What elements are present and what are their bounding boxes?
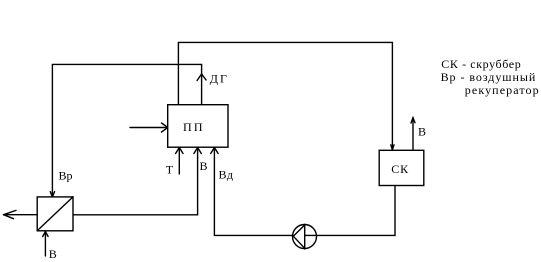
svg-text:ПП: ПП (183, 120, 205, 134)
label В below Вр (49, 247, 57, 261)
arrow exhaust out of Вр left side (4, 210, 38, 218)
legend line 1: СК - скруббер (441, 57, 521, 71)
svg-text:СК: СК (391, 162, 409, 176)
arrowhead down into СК top (391, 145, 394, 150)
label ДГ (210, 71, 229, 85)
wire ДГ flue gas: ПП top to Вр top (52, 64, 201, 196)
box СК scrubber (379, 150, 424, 185)
svg-text:рекуператор: рекуператор (465, 83, 540, 97)
label В at ПП bottom (200, 159, 208, 173)
arrow input into ПП left side (130, 123, 168, 132)
svg-text:В: В (418, 125, 426, 139)
svg-text:В: В (49, 247, 57, 261)
legend line 3: рекуператор (465, 83, 540, 97)
legend line 2: Вр - воздушный (441, 70, 537, 84)
svg-text:Вр - воздушный: Вр - воздушный (441, 70, 537, 84)
label ПП (183, 120, 205, 134)
wire Вд: СК bottom through pump to ПП bottom (211, 148, 395, 236)
box ПП (168, 105, 228, 148)
pump (circle with left-pointing triangle) (293, 224, 317, 249)
label В at СК (418, 125, 426, 139)
label СК (391, 162, 409, 176)
label Вд (219, 168, 234, 182)
box Вр air recuperator with diagonal (37, 197, 73, 231)
wire ПП top to СК top (178, 42, 392, 149)
svg-text:Вр: Вр (59, 169, 73, 183)
svg-text:В: В (200, 159, 208, 173)
arrow В air into Вр bottom (43, 232, 48, 257)
svg-text:Т: Т (166, 163, 174, 177)
arrowhead down into Вр top (50, 192, 54, 197)
arrowhead ДГ up (197, 74, 206, 81)
wire В out of СК top (411, 118, 415, 150)
svg-text:ДГ: ДГ (210, 71, 229, 85)
svg-text:Вд: Вд (219, 168, 234, 182)
label Вр (59, 169, 73, 183)
label Т (166, 163, 174, 177)
arrow Т (fuel) into ПП bottom (176, 148, 183, 175)
wire В: Вр right side to ПП bottom (73, 148, 201, 215)
